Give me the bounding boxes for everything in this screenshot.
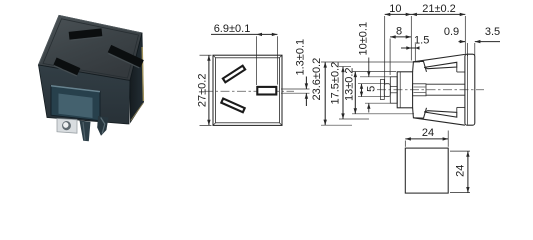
dim line 10/21 [385,13,466,15]
front view: slot L2 (angled, lower left) [221,98,244,112]
front view: corner bevels [213,55,216,58]
side view: top latch bump [413,61,427,71]
front view: outer square [213,55,282,125]
svg-text:23.6±0.2: 23.6±0.2 [311,58,323,101]
side view: top fin [424,62,457,68]
photo: right body face [130,33,144,122]
dim 5 extension lines [358,83,385,85]
svg-text:1.5: 1.5 [414,34,429,46]
svg-text:17.5±0.2: 17.5±0.2 [329,62,341,105]
photo: terminal tab with hole [57,119,77,134]
side view: bottom latch bump [413,108,427,118]
side view: terminal screw [384,84,390,97]
svg-text:8: 8 [396,26,402,38]
dim 1.3±0.1 extension lines [281,88,310,90]
svg-text:10±0.1: 10±0.1 [358,22,370,56]
svg-text:13±0.2: 13±0.2 [343,67,355,101]
photo: front-left body face [39,65,131,124]
dim 1.5 line and arrows [401,47,418,49]
dim 24 (top) line [405,138,448,140]
photo: slot L2 (lower-left) [53,58,80,76]
svg-text:21±0.2: 21±0.2 [422,3,456,15]
front view: centerline [204,90,294,92]
side view: main body [397,72,412,108]
side view: front plate [465,54,475,125]
photo of socket: top face [39,16,143,81]
svg-text:24: 24 [454,165,466,177]
photo: middle pin [80,121,91,142]
dim 5 line and arrows [361,84,363,97]
photo: right pin (curved) [97,116,108,136]
dim 0.9/3.5 line [459,41,466,43]
dim 17.5±0.2 line [342,67,344,120]
front view: slot N (horizontal, right) [257,87,276,95]
svg-text:1.3±0.1: 1.3±0.1 [294,39,306,76]
dim 6.9 extension lines [255,36,257,85]
extension lines 10/21 [384,16,386,84]
photo: front boss outer [51,86,100,121]
side view: contact pocket [413,84,426,96]
dim 27 extension ticks [200,54,212,56]
front view: inner square [216,58,280,123]
dim 13±0.2 line [354,72,356,114]
rear view square [405,148,448,193]
dim 1.3±0.1 arrows [305,77,307,90]
dim 13 extension lines [352,71,396,73]
dim 24 (right) line [467,151,469,193]
dim 23.6±0.2 line [324,62,326,125]
extension lines 0.9/3.5 [467,43,469,56]
dim 6.9±0.1 line [211,33,277,35]
svg-text:6.9±0.1: 6.9±0.1 [214,23,251,35]
side view: centerline [377,89,484,91]
photo: slot N (right) [107,45,143,68]
side view: terminal washer [380,80,384,100]
photo: tan edge highlight [142,47,143,101]
dim 8 line [390,36,411,38]
svg-text:5: 5 [365,86,377,92]
svg-text:27±0.2: 27±0.2 [196,74,208,108]
photo: slot L1 (top) [69,28,103,40]
svg-text:24: 24 [422,127,434,139]
svg-text:3.5: 3.5 [485,26,500,38]
svg-text:0.9: 0.9 [444,26,459,38]
photo: front boss inner face [59,94,93,119]
svg-text:10: 10 [389,3,401,15]
dim 27±0.2 line [208,55,210,125]
side view: terminal block [390,77,397,103]
dim 10±0.1 line [368,58,370,77]
dim 23.6 extension lines [321,61,420,63]
side view: outer silhouette top [413,54,465,61]
front view: slot L1 (angled, upper left) [223,66,245,83]
side view: bottom fin [424,111,457,117]
side view: cavity walls [426,83,465,85]
side view: outer silhouette bottom [413,118,465,125]
dim 17.5 extension lines [339,66,351,68]
